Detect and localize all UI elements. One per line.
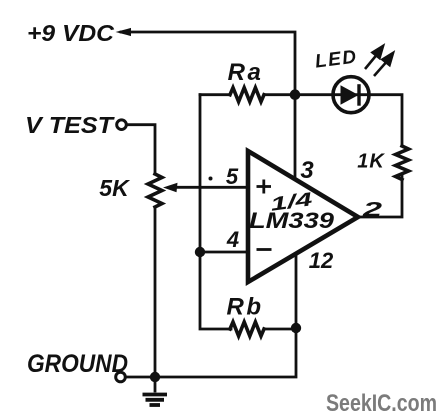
svg-text:12: 12: [309, 248, 334, 273]
svg-text:Ra: Ra: [228, 59, 264, 86]
svg-text:1K: 1K: [357, 151, 385, 173]
svg-text:+9 VDC: +9 VDC: [27, 20, 114, 46]
svg-text:V TEST: V TEST: [25, 112, 115, 138]
svg-text:SeekIC.com: SeekIC.com: [326, 390, 437, 417]
svg-text:Rb: Rb: [227, 294, 264, 321]
svg-text:GROUND: GROUND: [27, 350, 128, 378]
svg-text:3: 3: [300, 157, 314, 184]
svg-text:2: 2: [361, 199, 382, 221]
svg-text:4: 4: [226, 227, 239, 252]
svg-text:5: 5: [226, 164, 239, 189]
svg-text:5K: 5K: [99, 175, 130, 201]
